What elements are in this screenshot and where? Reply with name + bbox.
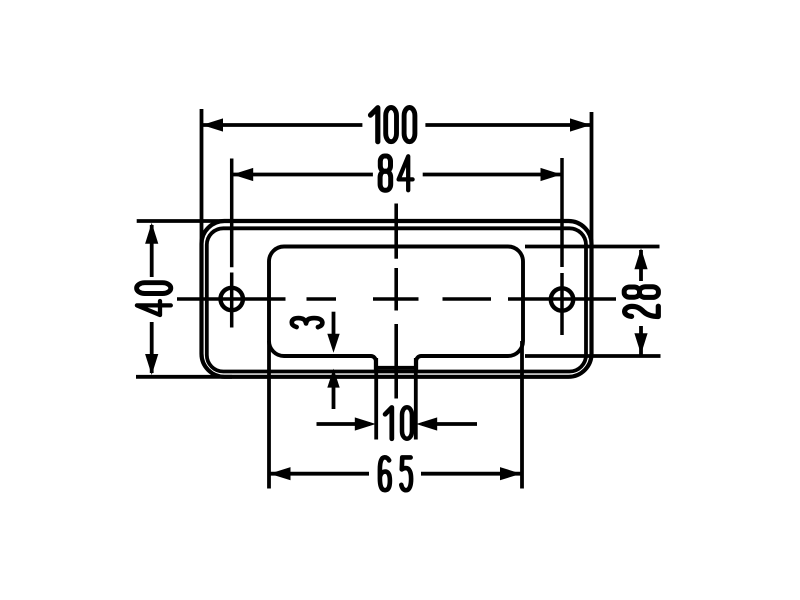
label 65 <box>380 457 411 490</box>
dim 3 lower line and arrow <box>327 369 339 388</box>
body inner outline <box>207 228 586 371</box>
dim 40 line <box>150 225 154 277</box>
label 84 <box>380 156 413 190</box>
label 40 (rotated) <box>137 283 171 315</box>
dim 10 extension lines <box>374 358 378 440</box>
dim 28 extension lines <box>525 245 660 249</box>
dim 100 line <box>203 123 362 127</box>
dim 40 extension lines <box>137 219 232 223</box>
dim 100 arrows <box>202 118 223 131</box>
dim 100 extension lines <box>200 109 204 246</box>
hole right <box>551 288 573 310</box>
dim 84 arrows <box>232 168 253 181</box>
dim 65 line <box>270 472 369 476</box>
label 10 <box>385 407 412 438</box>
inner window with notch <box>269 247 523 368</box>
dim 3 upper line and arrow <box>332 312 336 337</box>
right hole center line vertical (84 extension) <box>560 158 564 335</box>
body outer outline <box>202 221 592 377</box>
vertical center line <box>394 204 398 399</box>
hole left <box>221 288 243 310</box>
label 100 <box>371 108 415 142</box>
dim 65 arrows <box>270 467 291 480</box>
horizontal center line <box>177 297 616 301</box>
dim 10 arrows <box>355 417 376 430</box>
label 3 (rotated) <box>292 318 323 327</box>
dim 28 line <box>639 250 643 281</box>
label 28 (rotated) <box>624 287 658 317</box>
dim 28 arrows <box>634 248 647 269</box>
dim 40 arrows <box>145 223 158 244</box>
left hole center line vertical (84 extension) <box>230 159 234 328</box>
dim 84 line <box>233 173 373 177</box>
dim 10 line tails <box>317 422 371 426</box>
dim 65 extension lines <box>267 341 271 489</box>
